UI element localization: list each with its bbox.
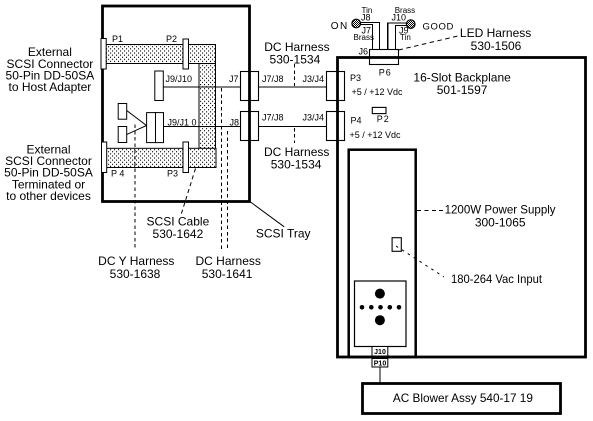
dashed leader 180-264 Vac input bbox=[396, 246, 444, 277]
svg-text:J10: J10 bbox=[374, 349, 386, 356]
LED harness wire J10 bbox=[388, 23, 407, 51]
text: left block 2 bbox=[4, 142, 93, 203]
svg-text:530-1641: 530-1641 bbox=[202, 267, 253, 281]
svg-text:P3: P3 bbox=[167, 169, 178, 179]
DC Y harness connector B bbox=[118, 127, 127, 143]
svg-text:530-1534: 530-1534 bbox=[271, 157, 322, 171]
svg-text:P3: P3 bbox=[350, 73, 361, 83]
svg-text:SCSI Tray: SCSI Tray bbox=[256, 227, 311, 241]
svg-text:180-264 Vac Input: 180-264 Vac Input bbox=[451, 272, 543, 286]
1200W power supply enclosure bbox=[349, 150, 416, 357]
svg-text:+5 / +12 Vdc: +5 / +12 Vdc bbox=[350, 130, 402, 140]
dashed leader DC Y harness bbox=[134, 125, 136, 250]
LED harness wire J7 bbox=[360, 25, 372, 51]
svg-text:ON: ON bbox=[331, 21, 349, 32]
16-slot backplane enclosure bbox=[338, 58, 586, 358]
dashed leader SCSI cable bbox=[181, 169, 196, 217]
text: J10 P10 labels bbox=[374, 349, 387, 368]
dashed leader to LED Harness label bbox=[399, 36, 459, 50]
connector P10 bbox=[372, 359, 388, 368]
svg-text:J8: J8 bbox=[230, 118, 240, 128]
connector J3/J4 - P4 on backplane edge bbox=[327, 112, 345, 141]
svg-text:to Host Adapter: to Host Adapter bbox=[9, 80, 92, 94]
svg-text:530-1638: 530-1638 bbox=[110, 267, 161, 281]
SCSI ribbon cable top band (530-1642) bbox=[106, 45, 216, 64]
svg-text:J9/J1 0: J9/J1 0 bbox=[168, 118, 197, 128]
AC outlet pin top bbox=[375, 289, 385, 299]
connector J3/J4 - P3 on backplane edge bbox=[327, 72, 345, 101]
AC input connector 180-264Vac bbox=[392, 238, 401, 252]
connector J8 on tray edge bbox=[241, 112, 259, 141]
text: DC Y Harness 530-1638 bbox=[98, 254, 174, 281]
text: LED Harness 530-1506 bbox=[460, 26, 531, 53]
text: 1200W Power Supply 300-1065 bbox=[445, 202, 556, 229]
SCSI ribbon cable bottom band bbox=[106, 148, 216, 167]
svg-text:J6: J6 bbox=[359, 47, 369, 57]
wire J9/J10 to J8 to J3/J4-P4 bbox=[160, 126, 330, 128]
text: LED harness labels bbox=[354, 6, 416, 42]
connector P2 (tray) bbox=[183, 39, 189, 69]
svg-text:530-1534: 530-1534 bbox=[270, 52, 321, 66]
svg-text:GOOD: GOOD bbox=[423, 22, 454, 33]
text: backplane connector labels bbox=[350, 47, 404, 140]
LED harness wire J8 bbox=[360, 22, 379, 51]
DC Y harness connector A bbox=[118, 104, 127, 120]
dashed leader DC harness 530-1534 bottom bbox=[294, 128, 296, 143]
text: left block 1 bbox=[6, 45, 95, 94]
svg-text:to other devices: to other devices bbox=[6, 189, 91, 203]
DC Y harness branch wire lower bbox=[127, 126, 147, 135]
svg-text:P 4: P 4 bbox=[111, 169, 124, 179]
svg-text:+5 / +12 Vdc: +5 / +12 Vdc bbox=[352, 87, 404, 97]
svg-text:P10: P10 bbox=[374, 361, 387, 368]
AC blower assy box bbox=[363, 384, 561, 414]
svg-text:300-1065: 300-1065 bbox=[475, 216, 526, 230]
connector J6/P6 bbox=[370, 50, 399, 65]
connector P2 (backplane) bbox=[372, 107, 386, 113]
connector P1 bbox=[101, 39, 106, 70]
svg-text:J7: J7 bbox=[229, 74, 239, 84]
text: 16-Slot Backplane 501-1597 bbox=[413, 71, 511, 98]
connector J10 (power supply bottom) bbox=[372, 347, 388, 357]
svg-text:J7/J8: J7/J8 bbox=[262, 74, 284, 84]
svg-text:501-1597: 501-1597 bbox=[437, 83, 488, 97]
text: DC Harness 530-1641 bbox=[196, 254, 261, 281]
svg-text:J9: J9 bbox=[399, 26, 409, 36]
svg-text:J8: J8 bbox=[361, 12, 371, 22]
svg-text:J3/J4: J3/J4 bbox=[303, 74, 325, 84]
dashed leader DC harness 530-1641 line B bbox=[227, 131, 229, 250]
connector J9/J10 lower right half bbox=[156, 113, 164, 143]
AC outlet box bbox=[355, 281, 407, 347]
AC outlet pin row bbox=[360, 305, 402, 310]
SCSI ribbon cable right column bbox=[199, 64, 216, 149]
LED harness wire J9 bbox=[395, 26, 407, 52]
wire P10 to AC blower bbox=[379, 367, 381, 383]
connector J9/J10 lower left half bbox=[147, 113, 156, 143]
connector J7 on tray edge bbox=[241, 72, 259, 101]
LED GOOD bbox=[406, 20, 415, 29]
dashed leader 1200W power supply bbox=[417, 210, 444, 212]
svg-text:P1: P1 bbox=[112, 34, 123, 44]
text: DC Harness 530-1534 top bbox=[264, 40, 329, 66]
svg-text:530-1642: 530-1642 bbox=[153, 227, 204, 241]
svg-text:P2: P2 bbox=[377, 114, 390, 124]
text: tray connector labels bbox=[111, 34, 324, 179]
dashed leader DC harness 530-1641 line A bbox=[221, 88, 223, 250]
leader line SCSI Tray label bbox=[251, 202, 285, 227]
svg-text:P6: P6 bbox=[379, 68, 392, 78]
connector P3 (tray) bbox=[183, 142, 189, 173]
svg-text:AC Blower Assy 540-17 19: AC Blower Assy 540-17 19 bbox=[393, 391, 533, 405]
svg-text:P2: P2 bbox=[166, 34, 177, 44]
connector P4 bbox=[102, 142, 107, 173]
SCSI tray enclosure bbox=[103, 6, 250, 202]
text: SCSI Cable 530-1642 bbox=[147, 215, 210, 242]
dashed leader DC harness 530-1534 top bbox=[294, 64, 296, 86]
LED ON bbox=[352, 19, 361, 28]
svg-text:530-1506: 530-1506 bbox=[471, 39, 522, 53]
svg-text:J10: J10 bbox=[392, 12, 407, 22]
AC outlet pin bottom bbox=[375, 315, 385, 325]
svg-text:P4: P4 bbox=[351, 115, 362, 125]
DC Y harness branch wire upper bbox=[127, 111, 147, 126]
svg-text:J7/J8: J7/J8 bbox=[262, 113, 284, 123]
svg-text:1200W Power Supply: 1200W Power Supply bbox=[445, 202, 556, 216]
text: DC Harness 530-1534 bottom bbox=[264, 145, 329, 171]
svg-text:J9/J10: J9/J10 bbox=[166, 74, 193, 84]
svg-text:J3/J4: J3/J4 bbox=[303, 113, 325, 123]
svg-text:J7: J7 bbox=[362, 26, 372, 36]
connector J9/J10 upper bbox=[155, 71, 164, 101]
wire J9/J10 to J7 to J3/J4-P3 bbox=[160, 86, 330, 88]
